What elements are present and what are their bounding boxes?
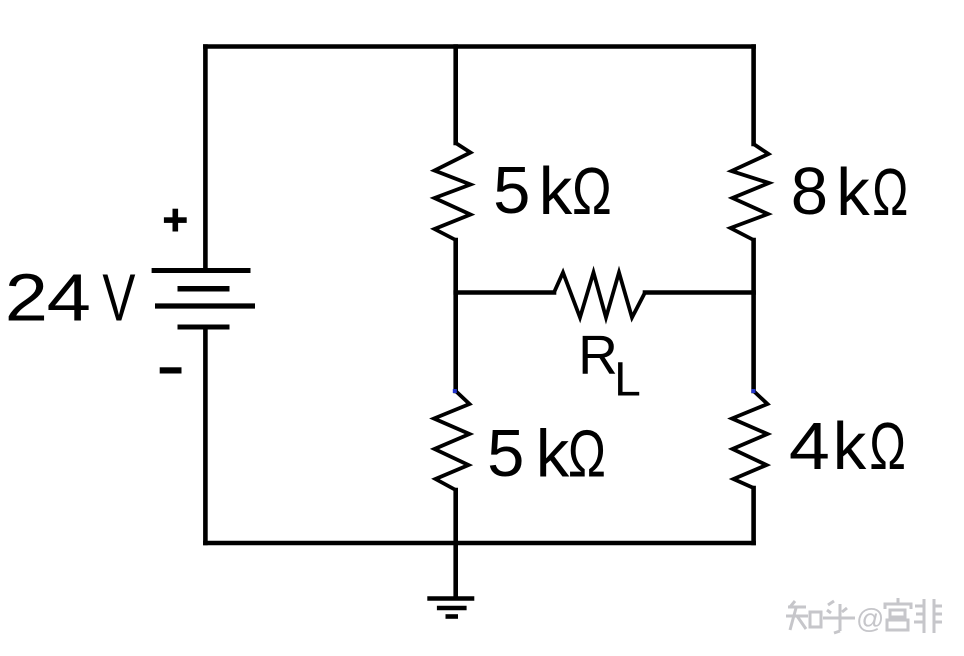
svg-text:2: 2 bbox=[5, 261, 48, 336]
svg-text:8: 8 bbox=[791, 154, 828, 229]
svg-text:R: R bbox=[578, 324, 618, 386]
svg-text:k: k bbox=[536, 417, 570, 492]
svg-text:5: 5 bbox=[493, 153, 530, 228]
svg-text:Ω: Ω bbox=[568, 416, 606, 491]
svg-text:5: 5 bbox=[487, 416, 524, 491]
svg-text:4: 4 bbox=[789, 408, 830, 483]
svg-text:k: k bbox=[539, 154, 573, 229]
svg-text:@: @ bbox=[856, 603, 884, 634]
svg-text:L: L bbox=[614, 354, 641, 407]
svg-text:k: k bbox=[836, 155, 870, 230]
svg-text:V: V bbox=[102, 261, 136, 335]
svg-text:k: k bbox=[833, 409, 867, 484]
svg-text:Ω: Ω bbox=[572, 153, 612, 228]
svg-text:Ω: Ω bbox=[872, 155, 908, 230]
svg-text:Ω: Ω bbox=[869, 410, 906, 484]
svg-text:4: 4 bbox=[47, 260, 91, 336]
